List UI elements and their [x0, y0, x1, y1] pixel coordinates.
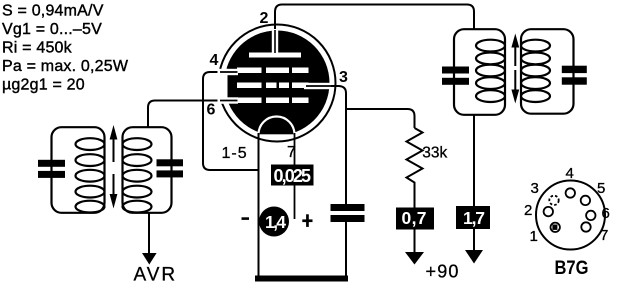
socket pin 5 [581, 196, 590, 205]
svg-text:4: 4 [210, 52, 219, 69]
halo pin2 [272, 29, 278, 54]
T2 secondary coil L4 [521, 40, 550, 102]
wire: T1 secondary bottom to AVR [148, 213, 150, 254]
+90 arrow right [465, 250, 483, 264]
plus terminal label [302, 214, 312, 227]
svg-text:3: 3 [339, 69, 348, 86]
wire pin4 into g3 [220, 71, 238, 73]
T2 variable coupling arrows [511, 34, 519, 104]
svg-text:1,4: 1,4 [265, 212, 286, 232]
halo channel left edge [218, 69, 228, 104]
tube data text block [2, 3, 129, 94]
input IF transformer T1 [52, 127, 172, 213]
T2 secondary tank loop [521, 29, 574, 114]
svg-text:Ri = 450k: Ri = 450k [2, 40, 73, 57]
T1 primary tuning capacitor [38, 160, 65, 178]
socket pin 3 [549, 196, 558, 205]
current box 0,025 [271, 165, 314, 187]
socket pin 6 [586, 211, 595, 220]
halo pin3 [304, 83, 331, 89]
minus terminal label [242, 217, 250, 220]
+90 arrow [405, 252, 424, 265]
anode plate bar [249, 53, 301, 58]
wire: bypass cap to chassis bus [345, 222, 347, 276]
svg-text:2: 2 [524, 202, 532, 219]
svg-text:0,025: 0,025 [274, 166, 312, 186]
svg-text:7: 7 [600, 227, 608, 244]
svg-text:1,7: 1,7 [463, 208, 485, 228]
wire: pin 7 down to 0,025 box [294, 133, 296, 165]
current box 0,7 [396, 208, 434, 230]
socket pin number labels [524, 165, 610, 245]
current box 1,7 [456, 206, 490, 229]
socket pin 7 [581, 222, 590, 231]
wire: 1,7 box to +90 arrow [473, 229, 475, 251]
socket pin 4 [566, 188, 575, 197]
T2 primary tank loop [454, 29, 505, 115]
svg-text:5: 5 [597, 180, 605, 197]
wire: branch to 33k resistor [346, 109, 415, 128]
svg-text:Pa = max. 0,25W: Pa = max. 0,25W [2, 58, 129, 75]
T1 primary tank loop [52, 127, 105, 213]
socket pin 2 [544, 207, 553, 216]
wire: anode pin2 to output IF transformer primary top [275, 5, 474, 31]
svg-text:AVR: AVR [134, 265, 178, 286]
svg-text:S = 0,94mA/V: S = 0,94mA/V [2, 3, 104, 20]
screen bypass capacitor [331, 204, 365, 222]
svg-text:0,7: 0,7 [402, 208, 427, 228]
wire pin2 inside disc [274, 30, 276, 53]
grid g2 row [237, 83, 309, 89]
wire: g2 pin3 down to decoupling cap and right to 33k [321, 86, 346, 205]
svg-text:33k: 33k [422, 145, 447, 162]
filament battery 1,4 [259, 207, 289, 237]
output IF transformer T2 [454, 29, 574, 115]
T2 primary tuning capacitor [442, 67, 469, 85]
wire: filament pins 1-5 down to chassis bus [258, 133, 260, 276]
svg-text:Vg1 = 0...–5V: Vg1 = 0...–5V [2, 21, 102, 38]
svg-text:µg2g1 = 20: µg2g1 = 20 [2, 77, 85, 94]
tube inner disc [225, 31, 330, 136]
grid g3 row [237, 68, 309, 74]
svg-text:B7G: B7G [555, 257, 589, 279]
T1 variable coupling arrows [110, 125, 118, 209]
wire: g1/g3 junction to input transformer and down to cathode line [148, 101, 222, 129]
svg-text:1-5: 1-5 [222, 145, 248, 162]
AVR arrow [142, 253, 157, 265]
pentode tube V1 [218, 25, 337, 142]
svg-text:3: 3 [531, 180, 539, 197]
T1 secondary tuning capacitor [157, 159, 184, 177]
grid g1 row [237, 98, 309, 104]
wire pin6 into g1 [220, 100, 238, 102]
cathode filament dome [259, 117, 295, 135]
wire: 0,7 box to +90 arrow [414, 230, 416, 254]
B7G socket outline [536, 181, 605, 250]
T1 secondary tank loop [123, 127, 172, 213]
wire: junction up to pin 4 [203, 72, 222, 101]
wire: T2 primary bottom down to current box 1,7 [473, 115, 475, 206]
T2 secondary tuning capacitor [562, 66, 587, 85]
svg-text:+90: +90 [426, 262, 460, 282]
T1 secondary coil L2 [123, 138, 152, 212]
wire: 0,025 box down to + terminal [294, 185, 296, 219]
svg-text:4: 4 [566, 165, 574, 182]
svg-text:1: 1 [530, 228, 538, 245]
halo pin6 [225, 97, 239, 103]
svg-text:2: 2 [260, 10, 269, 27]
chassis bus bar [255, 276, 348, 282]
T1 primary coil L1 [76, 138, 105, 212]
tube envelope [219, 25, 336, 142]
wire pin3 from g2 [306, 85, 336, 87]
socket pin 1 [551, 223, 560, 232]
svg-text:6: 6 [602, 205, 610, 222]
T2 primary coil L3 [476, 40, 505, 102]
halo pin4 [224, 69, 239, 75]
resistor 33k [407, 128, 423, 208]
svg-text:6: 6 [207, 102, 216, 119]
